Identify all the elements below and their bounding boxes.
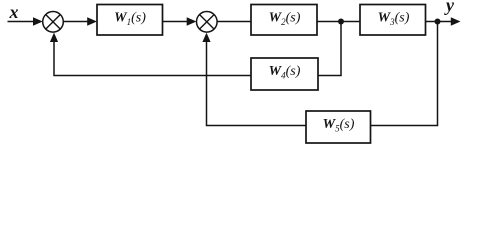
wire node B down and left into W5 input	[371, 22, 438, 126]
summing junction S1	[43, 11, 64, 32]
wire input arrow into summer S1	[8, 17, 43, 25]
svg-text:W1(s): W1(s)	[114, 11, 146, 28]
wire S1 to W1 with arrowhead	[63, 17, 97, 25]
summing junction S2	[197, 11, 218, 32]
svg-text:W5(s): W5(s)	[323, 117, 355, 134]
svg-text:W2(s): W2(s)	[269, 11, 301, 28]
block W2	[251, 5, 317, 36]
node B junction dot after W3	[435, 19, 441, 25]
wire W3 to output y with arrowhead	[426, 17, 461, 25]
svg-text:W3(s): W3(s)	[378, 11, 410, 28]
block W3	[360, 5, 426, 36]
block W5	[306, 111, 371, 143]
wire W2 to W3	[317, 21, 360, 23]
wire S2 to W2	[217, 21, 251, 23]
wire W5 output left then up into S2 with arrowhead	[202, 33, 306, 126]
block W1	[97, 5, 163, 36]
block W4	[251, 58, 318, 90]
svg-text:x: x	[9, 2, 19, 22]
node A junction dot between W2 and W3	[338, 19, 344, 25]
wire W4 output left then up into S1 with arrowhead	[50, 33, 251, 76]
svg-text:y: y	[444, 0, 455, 15]
wire W1 to summer S2 with arrowhead	[163, 17, 197, 25]
svg-text:W4(s): W4(s)	[269, 64, 301, 81]
wire node A down and left into W4 input	[318, 22, 341, 76]
